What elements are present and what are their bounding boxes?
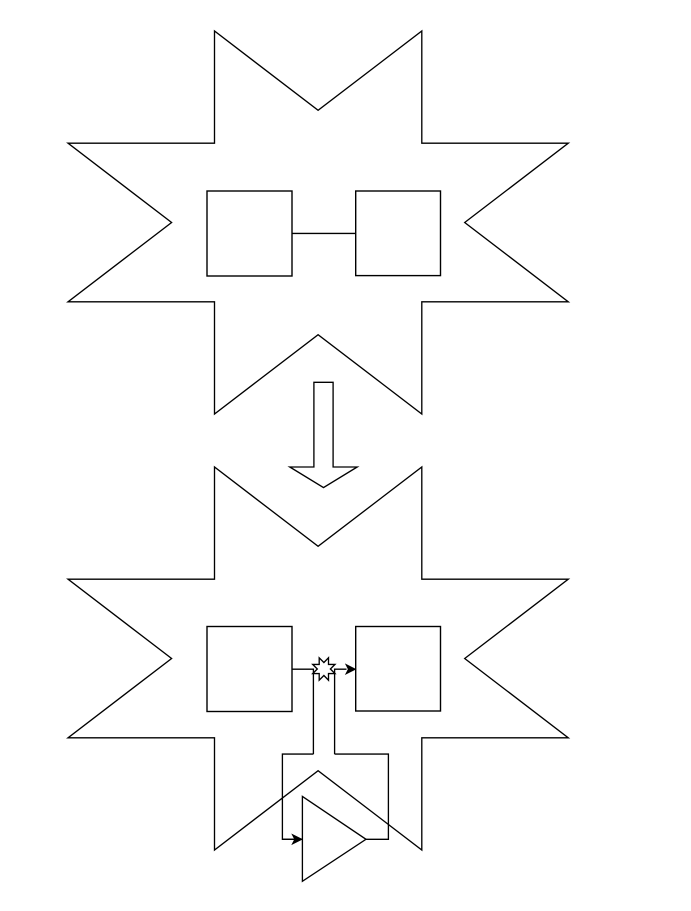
down block arrow [290,382,357,487]
wire B1 to channel [292,669,313,754]
8-point star burst (top) [68,31,568,414]
wire to triangle [282,838,293,840]
square A2 (top-right box) [356,191,441,276]
square B2 (bottom-right box) [356,627,441,712]
arrowhead into B2 [346,665,355,674]
8-point star burst (bottom) [68,467,568,850]
triangle (right-pointing) [302,796,366,881]
container box (open-top rectangle) [282,754,388,839]
wire A1-A2 [292,232,356,234]
wire channel to arrow B2 [335,669,347,754]
arrowhead into triangle [292,835,301,844]
square A1 (top-left box) [207,191,292,276]
square B1 (bottom-left box) [207,627,292,712]
small star burst node [313,658,335,680]
